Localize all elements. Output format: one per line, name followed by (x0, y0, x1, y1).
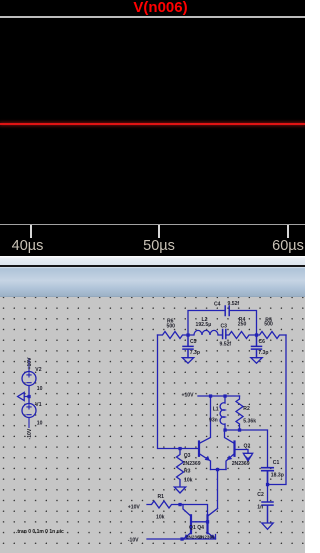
capacitor C2 (262, 502, 273, 523)
transistor Q2 emitter (226, 454, 235, 470)
capacitor C6 (252, 335, 262, 358)
emitter arrow Q2 (227, 455, 233, 460)
wire -10V bottom rail (147, 535, 216, 540)
junction node tank rail / R2 bottom (238, 428, 241, 431)
svg-text:+10V: +10V (128, 505, 141, 511)
svg-text:500: 500 (167, 324, 176, 330)
svg-text:-10V: -10V (128, 537, 139, 543)
svg-text:250: 250 (238, 322, 247, 328)
wire Q2 base to ground (235, 450, 249, 454)
svg-text:2N2369: 2N2369 (183, 461, 201, 467)
transistor Q1 emitter (182, 533, 191, 540)
svg-text:C2: C2 (257, 492, 264, 498)
transistor Q3 emitter (199, 454, 211, 470)
axis tick 50us (158, 225, 160, 238)
svg-text:93n: 93n (209, 418, 218, 424)
svg-text:.tran 0 0.1m 0 1n uic: .tran 0 0.1m 0 1n uic (16, 529, 64, 535)
ground at Q2 base (243, 453, 252, 461)
plot top border (0, 16, 305, 18)
svg-text:R2: R2 (243, 406, 250, 412)
axis tick 40us (30, 225, 32, 238)
wire C4 bridge (188, 311, 257, 336)
svg-text:10: 10 (37, 421, 43, 427)
transistor Q4 emitter (208, 533, 216, 540)
junction node R4/R5/C6/C4 (255, 333, 258, 336)
svg-text:9.52f: 9.52f (228, 301, 240, 307)
plot title V(n006) (8, 0, 313, 16)
svg-text:18.3p: 18.3p (271, 472, 284, 478)
svg-text:2N2369: 2N2369 (199, 534, 216, 539)
svg-text:10: 10 (37, 386, 43, 392)
ground below C2 (262, 523, 273, 529)
transistor Q1 collector (183, 505, 191, 517)
resistor R6 (158, 332, 189, 339)
axis label 40us (0, 238, 58, 254)
junction node R1 / Q1 collector (178, 503, 181, 506)
svg-text:L1: L1 (213, 407, 219, 413)
wire +10V rail (198, 395, 240, 397)
wire R1 node to base rail drop (180, 505, 208, 522)
junction node tank rail / L1 bottom / Q2 collector (223, 428, 226, 431)
trace V(n006) flat line (0, 123, 305, 125)
capacitor C5 (183, 335, 193, 358)
svg-text:C6: C6 (259, 339, 266, 345)
resistor R4 (226, 332, 257, 339)
wire between sources (28, 386, 30, 404)
svg-text:C1: C1 (273, 460, 280, 466)
emitter arrow Q4 (210, 534, 215, 538)
junction node emitter rail / tail (216, 468, 219, 471)
inductor L2 (188, 330, 222, 335)
axis label 60us (258, 238, 318, 254)
svg-text:+10V: +10V (27, 357, 33, 370)
axis tick 60us (287, 225, 289, 238)
ground below C5 (182, 358, 193, 364)
capacitor C3 (223, 330, 226, 339)
wire emitter rail + tail (211, 470, 227, 509)
wire C1 bottom to C2 (267, 485, 269, 502)
svg-text:1n: 1n (257, 505, 263, 511)
transistor Q2 base bar (233, 442, 235, 456)
axis label 50us (129, 238, 189, 254)
wire Q2 collector (225, 430, 235, 444)
svg-text:192.5µ: 192.5µ (196, 322, 212, 328)
transistor Q3 base bar (198, 442, 200, 456)
resistor R2 (236, 396, 243, 430)
ground below R3 (174, 487, 185, 493)
ground below C6 (251, 358, 262, 364)
junction node +10V rail / Q3 collector (209, 394, 212, 397)
svg-text:+10V: +10V (182, 392, 195, 398)
junction node Q1-Q4 base rail (206, 520, 209, 523)
svg-text:7.3p: 7.3p (258, 350, 268, 356)
svg-text:Q1 Q4: Q1 Q4 (189, 525, 204, 531)
svg-text:C4: C4 (214, 302, 221, 308)
capacitor C4 (225, 306, 229, 316)
svg-text:7.3p: 7.3p (190, 350, 200, 356)
transistor Q4 collector (208, 509, 218, 517)
svg-text:Q2: Q2 (244, 444, 251, 450)
junction node R6/L2/C5/C4 (186, 333, 189, 336)
dark separator (0, 265, 305, 267)
svg-text:500: 500 (264, 322, 273, 328)
wire feedback left vertical + Q3 base wire (158, 335, 200, 449)
time axis line (0, 224, 305, 226)
junction node C1/C2/right wire (266, 483, 269, 486)
wire right vertical from R5 to C1 node (268, 335, 287, 485)
svg-text:R3: R3 (184, 469, 191, 475)
junction node +10V rail / L1 top (223, 394, 226, 397)
resistor R1 (147, 501, 180, 508)
voltage source V2 (22, 372, 36, 386)
schematic window title bar (blue) (0, 267, 305, 297)
svg-text:-10V: -10V (27, 428, 33, 439)
svg-text:10k: 10k (184, 478, 193, 484)
svg-text:V2: V2 (35, 367, 41, 373)
voltage source V1 (22, 404, 36, 418)
transistor Q4 base bar (206, 515, 208, 533)
transistor Q1 base bar (190, 515, 192, 533)
inductor L1 (220, 396, 225, 430)
junction node -10V rail / Q1 emitter (180, 537, 183, 540)
junction node V1/V2 midpoint (27, 395, 30, 398)
waveform pane (0, 0, 305, 256)
emitter arrow Q1 (184, 534, 189, 538)
svg-text:C3: C3 (221, 324, 228, 330)
svg-text:10k: 10k (156, 515, 165, 521)
wire tank bottom rail to C1 (225, 430, 268, 467)
wire Q1-Q4 base rail (191, 521, 208, 523)
capacitor C1 (262, 468, 273, 485)
junction node Q3 base / R3 top (178, 447, 181, 450)
emitter arrow Q3 (205, 456, 210, 461)
svg-text:9.52f: 9.52f (220, 341, 232, 347)
svg-text:R1: R1 (158, 494, 165, 500)
svg-text:C5: C5 (190, 339, 197, 345)
ground flag left at source midpoint (18, 392, 29, 400)
svg-text:V1: V1 (35, 402, 41, 408)
resistor R3 (177, 449, 184, 487)
wire Q3 collector vertical (199, 396, 211, 444)
svg-text:5.36k: 5.36k (243, 419, 256, 425)
resistor R5 (257, 332, 287, 339)
svg-text:2N2369: 2N2369 (232, 461, 250, 467)
svg-text:Q3: Q3 (184, 453, 191, 459)
schematic pane with dot grid (0, 297, 305, 553)
window bottom frame strip (0, 256, 305, 265)
